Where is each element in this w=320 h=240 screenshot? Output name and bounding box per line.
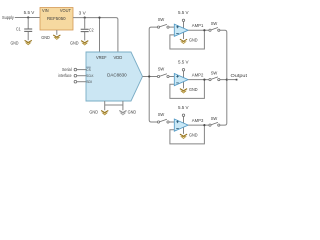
- wire DAC output bus: [143, 27, 158, 122]
- svg-text:DAC8830: DAC8830: [107, 72, 127, 77]
- ground C2: [70, 41, 88, 46]
- wire feedback AMP2: [170, 80, 205, 99]
- ground DAC digital: [119, 109, 136, 115]
- wire output bus: [220, 30, 227, 125]
- wire AMP2 output: [188, 79, 209, 81]
- ground DAC analog: [89, 109, 108, 115]
- pin CS: [74, 67, 91, 72]
- svg-text:VDD: VDD: [114, 55, 123, 60]
- svg-text:SDI: SDI: [86, 79, 92, 84]
- switch SW2b (output): [209, 71, 220, 81]
- svg-text:interface: interface: [58, 73, 72, 78]
- wire feedback AMP3: [170, 125, 205, 144]
- wire switch SW3a to AMP3: [169, 121, 174, 123]
- switch SW3a (input): [157, 112, 169, 123]
- pin SDI: [74, 79, 92, 84]
- svg-text:CS: CS: [86, 67, 91, 72]
- capacitor C2: [81, 18, 94, 41]
- node DAC output junction: [148, 75, 150, 77]
- ground C1: [11, 40, 32, 45]
- label serial interface: [58, 67, 72, 78]
- wire switch SW1a to AMP1: [169, 26, 174, 28]
- svg-text:Supply: Supply: [2, 15, 14, 20]
- svg-text:C1: C1: [16, 27, 21, 32]
- op-amp AMP2: [174, 71, 204, 89]
- power 5.5V pin AMP2: [178, 60, 189, 71]
- power 5.5V pin AMP1: [178, 10, 189, 21]
- svg-text:3 V: 3 V: [79, 10, 86, 15]
- wire supply input: [15, 17, 40, 19]
- svg-text:GND: GND: [89, 109, 98, 114]
- svg-text:VREF: VREF: [96, 55, 107, 60]
- svg-text:SW: SW: [158, 112, 165, 117]
- switch SW1b (output): [209, 21, 220, 31]
- svg-text:SW: SW: [158, 17, 165, 22]
- wire feedback AMP1: [170, 30, 205, 49]
- svg-text:GND: GND: [189, 87, 198, 92]
- svg-text:5.5 V: 5.5 V: [178, 10, 189, 15]
- DAC U2 DAC8830: [86, 52, 143, 101]
- svg-text:GND: GND: [41, 35, 50, 40]
- wire VREF drop: [99, 18, 101, 52]
- ground AMP1: [180, 37, 198, 43]
- op-amp AMP1: [174, 22, 204, 40]
- node C2 junction: [84, 17, 86, 19]
- node output junction: [226, 79, 228, 81]
- svg-text:VIN: VIN: [42, 8, 49, 13]
- regulator U1 REF5050: [40, 8, 73, 31]
- svg-text:Serial: Serial: [62, 67, 72, 72]
- node VREF junction: [98, 17, 100, 19]
- svg-text:GND: GND: [11, 40, 19, 45]
- power 5.5V pin AMP3: [178, 105, 189, 116]
- svg-text:C2: C2: [89, 28, 94, 33]
- wire AMP3 output: [188, 124, 209, 126]
- svg-text:REF5050: REF5050: [47, 16, 66, 21]
- svg-text:GND: GND: [70, 41, 79, 46]
- node AMP3 output junction: [203, 124, 205, 126]
- svg-text:AMP1: AMP1: [192, 23, 204, 28]
- svg-text:GND: GND: [189, 37, 198, 42]
- svg-text:VOUT: VOUT: [60, 8, 71, 13]
- svg-text:AMP3: AMP3: [192, 118, 204, 123]
- svg-text:SW: SW: [211, 21, 218, 26]
- svg-text:5.5 V: 5.5 V: [178, 105, 189, 110]
- wire 3V rail: [73, 18, 118, 52]
- switch SW3b (output): [209, 116, 220, 126]
- wire AMP1 output: [188, 29, 209, 31]
- capacitor C1: [16, 18, 32, 41]
- svg-text:SW: SW: [211, 116, 218, 121]
- svg-text:AMP2: AMP2: [192, 72, 204, 77]
- svg-text:SW: SW: [211, 71, 218, 76]
- ground REF5050: [41, 30, 60, 40]
- node AMP2 output junction: [203, 79, 205, 81]
- ground AMP2: [180, 87, 198, 93]
- wire DAC ground pins: [105, 101, 123, 110]
- wire output stub: [227, 79, 237, 81]
- svg-text:5.5 V: 5.5 V: [178, 60, 189, 65]
- ground AMP3: [180, 132, 198, 138]
- pin SCLK: [74, 73, 94, 78]
- node supply junction: [27, 16, 29, 18]
- svg-text:Output: Output: [231, 73, 248, 78]
- switch SW2a (input): [157, 66, 169, 77]
- switch SW1a (input): [157, 17, 169, 28]
- op-amp AMP3: [174, 116, 204, 133]
- svg-text:GND: GND: [128, 109, 137, 114]
- svg-text:SCLK: SCLK: [86, 73, 93, 78]
- svg-text:SW: SW: [158, 66, 165, 71]
- node AMP1 output junction: [203, 29, 205, 31]
- svg-text:5.5 V: 5.5 V: [24, 10, 35, 15]
- svg-text:GND: GND: [189, 132, 198, 137]
- wire switch SW2a to AMP2: [169, 76, 174, 78]
